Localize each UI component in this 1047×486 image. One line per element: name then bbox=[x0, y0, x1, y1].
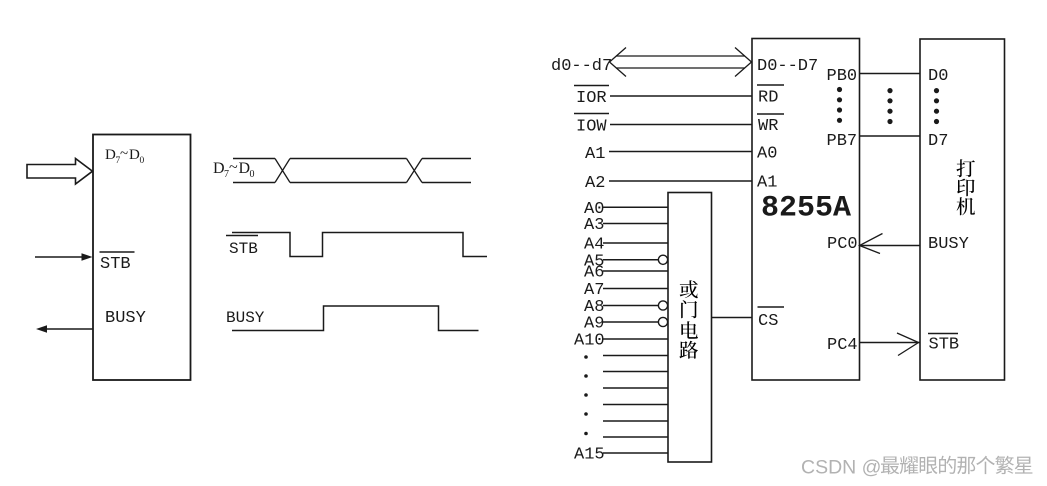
svg-text:D: D bbox=[213, 160, 225, 177]
svg-text:~: ~ bbox=[229, 159, 238, 176]
svg-text:IOR: IOR bbox=[576, 89, 607, 108]
wire (unlabeled address line) bbox=[603, 371, 668, 373]
svg-text:A10: A10 bbox=[574, 332, 605, 351]
svg-text:A0: A0 bbox=[757, 145, 777, 164]
svg-text:BUSY: BUSY bbox=[928, 235, 969, 254]
svg-text:D: D bbox=[239, 160, 251, 177]
label IOW (overlined) bbox=[574, 114, 609, 137]
svg-text:D: D bbox=[129, 147, 140, 163]
wire OR output to CS bbox=[712, 317, 753, 319]
watermark CSDN @最耀眼的那个繁星 bbox=[801, 456, 1032, 479]
svg-text:STB: STB bbox=[229, 240, 258, 258]
svg-text:0: 0 bbox=[140, 156, 145, 166]
svg-text:D7: D7 bbox=[928, 132, 948, 151]
BUSY waveform bbox=[232, 306, 479, 331]
interface box (left device block) bbox=[93, 135, 191, 381]
data bus waveform D7~D0 bbox=[233, 159, 471, 183]
wire IOR to RD bbox=[610, 95, 752, 97]
svg-text:A2: A2 bbox=[585, 174, 605, 193]
svg-text:PB7: PB7 bbox=[827, 132, 858, 151]
OR box name 或门电路 (vertical) bbox=[679, 280, 698, 358]
svg-text:PC0: PC0 bbox=[827, 235, 858, 254]
svg-text:A6: A6 bbox=[584, 264, 604, 283]
printer pin label STB (overlined) bbox=[928, 334, 959, 355]
wire STB input arrow bbox=[35, 253, 93, 261]
svg-text:IOW: IOW bbox=[576, 118, 607, 137]
svg-text:D0: D0 bbox=[928, 67, 948, 86]
svg-text:RD: RD bbox=[758, 89, 778, 108]
label D7~D0 (timing) bbox=[213, 159, 255, 180]
svg-text:A1: A1 bbox=[757, 174, 777, 193]
printer name 打印机 (vertical) bbox=[956, 159, 974, 215]
svg-text:A1: A1 bbox=[585, 145, 605, 164]
wire PB7 to D7 bbox=[860, 135, 921, 137]
wire PC4 to STB with open arrowhead bbox=[860, 333, 920, 356]
bus crossover 1 bbox=[275, 159, 290, 183]
svg-text:0: 0 bbox=[250, 169, 255, 180]
wire BUSY to PC0 with open arrowhead bbox=[860, 234, 921, 254]
svg-text:D0--D7: D0--D7 bbox=[757, 57, 818, 76]
bidirectional data bus arrow d0--d7 to D0--D7 bbox=[610, 48, 752, 77]
wire A9 to OR box bbox=[603, 317, 668, 326]
wire A6 to OR box bbox=[603, 270, 668, 272]
STB waveform bbox=[232, 233, 487, 257]
wire A15 to OR box bbox=[603, 452, 668, 454]
svg-text:~: ~ bbox=[120, 146, 128, 162]
8255A chip box bbox=[752, 39, 860, 381]
wire BUSY output arrow bbox=[36, 325, 93, 333]
hollow bus arrow into left box bbox=[27, 159, 93, 185]
svg-text:A15: A15 bbox=[574, 446, 605, 465]
wire (unlabeled address line) bbox=[603, 387, 668, 389]
wire A10 to OR box bbox=[603, 338, 668, 340]
svg-text:STB: STB bbox=[929, 336, 960, 355]
dots bus column bbox=[887, 88, 892, 124]
svg-text:PC4: PC4 bbox=[827, 336, 858, 355]
dots D column (printer) bbox=[934, 88, 939, 124]
svg-text:STB: STB bbox=[100, 255, 131, 274]
svg-text:CS: CS bbox=[758, 312, 778, 331]
printer box bbox=[920, 39, 1005, 380]
label STB (timing, overlined) bbox=[226, 236, 258, 259]
OR-gate circuit box 或门电路 bbox=[668, 193, 712, 463]
pin label WR (overlined) bbox=[757, 114, 784, 136]
pin label RD (overlined) bbox=[757, 85, 784, 108]
wire PB0 to D0 bbox=[860, 73, 921, 75]
dots PB column bbox=[837, 87, 842, 123]
bus crossover 2 bbox=[407, 159, 423, 183]
svg-text:d0--d7: d0--d7 bbox=[551, 57, 612, 76]
svg-text:PB0: PB0 bbox=[827, 67, 858, 86]
wire (unlabeled address line) bbox=[603, 436, 668, 438]
wire (unlabeled address line) bbox=[603, 355, 668, 357]
svg-text:WR: WR bbox=[758, 117, 778, 136]
wire (unlabeled address line) bbox=[603, 420, 668, 422]
label IOR (overlined) bbox=[574, 86, 609, 109]
wire A7 to OR box bbox=[603, 288, 668, 290]
svg-text:D: D bbox=[105, 147, 116, 163]
svg-text:BUSY: BUSY bbox=[226, 309, 265, 327]
wire A3 to OR box bbox=[603, 223, 668, 225]
wire A2 to A1 bbox=[609, 180, 752, 182]
wire (unlabeled address line) bbox=[603, 404, 668, 406]
pin label CS (overlined) bbox=[758, 307, 785, 331]
wire IOW to WR bbox=[610, 124, 752, 126]
wire A0 to OR box bbox=[603, 206, 668, 208]
wire A8 to OR box bbox=[603, 301, 668, 310]
wire A1 to A0 bbox=[609, 151, 752, 153]
dots address ellipsis column bbox=[584, 355, 588, 435]
wire A4 to OR box bbox=[603, 242, 668, 244]
label STB (left box, overlined) bbox=[100, 252, 135, 274]
svg-text:A3: A3 bbox=[584, 216, 604, 235]
svg-text:CSDN @: CSDN @ bbox=[801, 457, 881, 479]
label D7~D0 (left box) bbox=[105, 146, 145, 166]
svg-text:8255A: 8255A bbox=[761, 192, 851, 226]
svg-text:BUSY: BUSY bbox=[105, 309, 146, 328]
wire A5 to OR box bbox=[603, 255, 668, 264]
